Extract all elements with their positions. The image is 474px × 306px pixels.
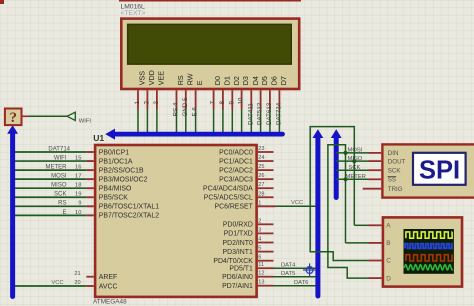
svg-text:A: A: [386, 223, 391, 230]
wire SCK to SPI: [336, 165, 381, 171]
wire scope B net: [346, 242, 382, 244]
bus left vertical (to U1): [7, 125, 18, 296]
svg-text:PD3/INT1: PD3/INT1: [223, 249, 253, 256]
svg-text:2: 2: [258, 218, 261, 224]
microcontroller U1 ATMEGA48 body: [93, 133, 257, 306]
svg-text:23: 23: [258, 146, 264, 152]
svg-text:D1: D1: [223, 76, 232, 85]
component ? (unplaced device): [5, 109, 22, 126]
svg-text:E: E: [195, 80, 204, 85]
svg-text:D: D: [386, 275, 391, 282]
svg-text:METER: METER: [46, 165, 68, 171]
svg-text:21: 21: [74, 271, 80, 277]
LCD pin 1 (VSS) wire: [134, 90, 141, 132]
wire METER to SPI: [336, 174, 381, 180]
LCD pin 14 (D7) wire: [275, 90, 282, 132]
U1 pin 23 stub: [258, 146, 274, 152]
svg-text:15: 15: [75, 155, 81, 161]
waveform channel B (blue): [405, 244, 453, 249]
svg-text:SS: SS: [388, 177, 396, 184]
svg-text:DAT5: DAT5: [281, 271, 295, 277]
U1 pin 5 stub: [258, 246, 274, 252]
svg-text:MISO: MISO: [51, 183, 67, 189]
svg-text:PC3/ADC3: PC3/ADC3: [219, 176, 253, 183]
bus LCD data/control (horizontal): [105, 129, 282, 140]
svg-text:24: 24: [258, 155, 264, 161]
svg-text:U1: U1: [93, 133, 104, 143]
svg-text:20: 20: [74, 280, 80, 286]
svg-text:D6: D6: [270, 76, 279, 85]
svg-text:D2: D2: [232, 76, 241, 85]
U1 pin 3 stub: [258, 227, 274, 233]
svg-text:?: ?: [10, 110, 18, 126]
svg-text:10: 10: [238, 97, 245, 104]
LCD pin 5 (RW) wire: [182, 90, 189, 132]
svg-text:B: B: [386, 240, 390, 247]
svg-text:SPI: SPI: [419, 157, 460, 185]
svg-text:MOSI: MOSI: [51, 174, 67, 180]
svg-text:RS: RS: [176, 75, 185, 85]
svg-text:PB0/ICP1: PB0/ICP1: [99, 149, 129, 156]
svg-text:D3: D3: [241, 76, 250, 85]
svg-text:3: 3: [258, 227, 261, 233]
wire scope A net: [354, 224, 381, 226]
svg-text:METER: METER: [346, 174, 366, 180]
svg-text:7: 7: [210, 101, 217, 105]
svg-text:RS: RS: [58, 201, 66, 207]
svg-text:PB3/MOSI/OC2: PB3/MOSI/OC2: [99, 176, 148, 183]
U1 pin 4 stub: [258, 237, 274, 243]
LCD pin 4 (RS) wire: [173, 90, 180, 132]
svg-text:PC4/ADC4/SDA: PC4/ADC4/SDA: [203, 186, 253, 193]
LCD pin 2 (VDD) wire: [143, 90, 150, 132]
svg-text:PB6/TOSC1/XTAL1: PB6/TOSC1/XTAL1: [99, 204, 159, 211]
wire VCC to U1 pin 20 AVCC: [15, 280, 94, 286]
svg-text:<TEXT>: <TEXT>: [121, 10, 146, 17]
wire DAT714 to U1 left pin 14: [15, 146, 94, 152]
wire E to U1 left pin 10: [15, 210, 94, 216]
LCD pin 11 (D4) wire: [247, 90, 254, 132]
svg-text:PC6/RESET: PC6/RESET: [215, 204, 254, 211]
svg-text:D0: D0: [213, 76, 222, 85]
svg-text:26: 26: [258, 173, 264, 179]
U1 pin 26 stub: [258, 173, 274, 179]
svg-text:AVCC: AVCC: [99, 283, 118, 290]
svg-text:12: 12: [258, 271, 264, 277]
svg-text:D5: D5: [260, 76, 269, 85]
wire SCK to U1 left pin 19: [15, 192, 94, 198]
LCD pin 10 (D3) wire: [238, 90, 245, 132]
svg-text:9: 9: [228, 101, 235, 105]
wire ? to WIFI terminal: [22, 115, 68, 117]
wire MISO to U1 left pin 18: [15, 183, 94, 189]
U1 pin 28 stub: [258, 191, 274, 197]
svg-text:9: 9: [78, 201, 81, 207]
U1 pin 2 stub: [258, 218, 274, 224]
svg-text:VEE: VEE: [157, 71, 166, 86]
svg-text:19: 19: [75, 192, 81, 198]
svg-text:PC5/ADC5/SCL: PC5/ADC5/SCL: [204, 195, 253, 202]
wire scope C net: [310, 252, 382, 261]
svg-text:PD2/INT0: PD2/INT0: [223, 240, 253, 247]
svg-text:1: 1: [258, 200, 261, 206]
LCD pin 9 (D2) wire: [228, 90, 235, 132]
LCD pin 8 (D1) wire: [219, 90, 226, 132]
wire RS to U1 left pin 9: [15, 201, 94, 207]
svg-text:4: 4: [258, 237, 261, 243]
svg-text:1: 1: [134, 101, 141, 105]
bus right vertical long: [313, 129, 324, 296]
svg-text:18: 18: [75, 183, 81, 189]
waveform channel A (yellow): [406, 232, 452, 238]
svg-text:VSS: VSS: [138, 71, 147, 86]
LCD display LCD1 LM016L: [119, 1, 301, 89]
wire DAT6 U1 pin 13 to bus: [258, 280, 316, 286]
svg-text:11: 11: [258, 262, 264, 268]
svg-text:PC0/ADC0: PC0/ADC0: [219, 149, 253, 156]
U1 pin 6 stub: [258, 255, 274, 261]
wire WIFI to U1 left pin 15: [15, 155, 94, 161]
LCD pin 12 (D5) wire: [257, 90, 264, 132]
svg-text:AREF: AREF: [99, 274, 117, 281]
svg-text:TRIG: TRIG: [388, 186, 403, 193]
LCD pin 13 (D6) wire: [266, 90, 273, 132]
oscilloscope display: [383, 217, 462, 286]
svg-text:SCK: SCK: [388, 168, 402, 175]
waveform channel D (green): [405, 265, 453, 270]
wire scope D net: [328, 144, 382, 278]
svg-text:GND 5: GND 5: [182, 97, 189, 116]
junction METER: [343, 177, 347, 181]
svg-text:8: 8: [219, 101, 226, 105]
wire MOSI to SPI: [336, 148, 381, 154]
svg-text:PC1/ADC1: PC1/ADC1: [219, 158, 253, 165]
wire DAT5 U1 pin 12 to bus: [258, 271, 316, 277]
origin marker: [303, 263, 316, 276]
svg-text:3: 3: [153, 101, 160, 105]
wire TRIG stub: [363, 188, 382, 190]
LCD pin 3 (VEE) wire: [153, 90, 160, 132]
wire VCC frame top: [310, 127, 354, 252]
svg-text:ATMEGA48: ATMEGA48: [93, 298, 127, 305]
svg-text:PC2/ADC2: PC2/ADC2: [219, 167, 253, 174]
SPI module: [382, 144, 474, 197]
svg-text:D4: D4: [251, 76, 260, 85]
svg-text:PD0/RXD: PD0/RXD: [223, 222, 253, 229]
svg-text:PD6/AIN0: PD6/AIN0: [222, 274, 253, 281]
U1 pin 27 stub: [258, 182, 274, 188]
svg-text:PB4/MISO: PB4/MISO: [99, 186, 132, 193]
svg-text:DAT4: DAT4: [281, 263, 296, 269]
svg-text:PD7/AIN1: PD7/AIN1: [222, 283, 253, 290]
svg-text:DAT613: DAT613: [266, 102, 273, 125]
svg-text:DOUT: DOUT: [388, 158, 406, 165]
svg-text:PD4/T0/XCK: PD4/T0/XCK: [213, 258, 253, 265]
svg-text:6: 6: [258, 255, 261, 261]
svg-text:25: 25: [258, 164, 264, 170]
svg-text:DIN: DIN: [388, 150, 399, 157]
svg-text:SCK: SCK: [54, 192, 66, 198]
svg-text:WIFI: WIFI: [54, 155, 67, 161]
svg-text:27: 27: [258, 182, 264, 188]
terminal WIFI: [67, 112, 91, 124]
svg-text:RW: RW: [185, 73, 194, 85]
junction MOSI: [343, 151, 347, 155]
svg-text:VCC: VCC: [51, 280, 63, 286]
svg-text:PB5/SCK: PB5/SCK: [99, 195, 129, 202]
U1 pin 24 stub: [258, 155, 274, 161]
svg-text:13: 13: [258, 280, 264, 286]
svg-text:PB1/OC1A: PB1/OC1A: [99, 158, 133, 165]
svg-text:VDD: VDD: [147, 70, 156, 85]
svg-text:MOSI: MOSI: [348, 148, 363, 154]
svg-text:28: 28: [258, 191, 264, 197]
wire METER to U1 left pin 16: [15, 165, 94, 171]
LCD pin 6 (E) wire: [192, 90, 199, 132]
svg-text:PB2/SS/OC1B: PB2/SS/OC1B: [99, 167, 144, 174]
svg-text:17: 17: [75, 174, 81, 180]
waveform channel C (red): [406, 255, 452, 261]
svg-text:VCC: VCC: [291, 200, 303, 206]
U1 pin 25 stub: [258, 164, 274, 170]
U1 pin 21 AREF stub: [74, 271, 93, 277]
svg-text:WIFI: WIFI: [79, 119, 92, 125]
svg-text:D7: D7: [279, 76, 288, 85]
wire inner corner net: [328, 145, 346, 243]
wire MOSI to U1 left pin 17: [15, 174, 94, 180]
svg-text:5: 5: [258, 246, 261, 252]
wire DAT4 U1 pin 11 to bus: [258, 262, 316, 268]
svg-text:16: 16: [75, 165, 81, 171]
svg-text:DAT714: DAT714: [48, 146, 70, 152]
svg-text:DAT6: DAT6: [294, 280, 308, 286]
svg-text:PB7/TOSC2/XTAL2: PB7/TOSC2/XTAL2: [99, 213, 159, 220]
svg-text:DAT411: DAT411: [247, 103, 254, 125]
svg-text:RS 4: RS 4: [173, 102, 180, 116]
bus right vertical short: [331, 129, 342, 197]
junction MISO: [352, 159, 356, 163]
svg-text:PD1/TXD: PD1/TXD: [224, 231, 253, 238]
svg-text:E 6: E 6: [192, 107, 199, 117]
svg-text:E: E: [62, 210, 66, 216]
svg-text:DAT714: DAT714: [275, 102, 282, 125]
svg-text:10: 10: [75, 210, 81, 216]
svg-text:DAT512: DAT512: [257, 102, 264, 125]
svg-text:C: C: [386, 258, 391, 265]
svg-text:2: 2: [143, 101, 150, 105]
svg-text:PD5/T1: PD5/T1: [229, 266, 253, 273]
U1 pin 1 RESET wire VCC: [258, 200, 316, 206]
wire MISO to SPI: [336, 156, 381, 162]
LCD pin 7 (D0) wire: [210, 90, 217, 132]
svg-text:SCK: SCK: [349, 165, 361, 171]
